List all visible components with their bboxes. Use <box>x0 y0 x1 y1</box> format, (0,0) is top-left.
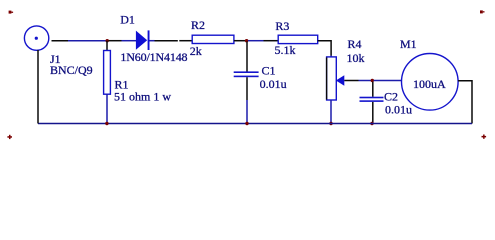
svg-text:2k: 2k <box>190 44 202 58</box>
diode D1 <box>136 30 150 50</box>
resistor R1 <box>104 51 111 95</box>
wire C2 top lead <box>372 82 374 97</box>
corner mark top-left <box>9 11 13 14</box>
corner mark bottom-right <box>482 135 487 139</box>
wire wiper to node C <box>344 80 371 82</box>
wire C1 top lead <box>246 42 248 72</box>
wire R1 bottom lead <box>106 94 108 123</box>
capacitor C2 <box>360 97 384 102</box>
node C (junction C2 top / wiper) <box>371 79 374 82</box>
resistor R2 <box>192 35 234 43</box>
node A (junction R1 top) <box>106 39 109 42</box>
node G (junction C1 bottom) <box>245 122 248 125</box>
wire D1 to R2 <box>150 40 193 42</box>
connector J1 (BNC) <box>24 26 48 50</box>
wire node C to meter M1 <box>374 80 402 82</box>
wire bottom rail <box>38 123 472 125</box>
svg-text:D1: D1 <box>120 13 135 27</box>
capacitor C1 <box>234 71 259 77</box>
wire node B to R3 <box>248 40 278 42</box>
svg-text:R3: R3 <box>275 19 289 33</box>
svg-text:0.01u: 0.01u <box>385 103 412 117</box>
node D (junction C2 bottom) <box>370 122 373 125</box>
wire R4 bottom lead <box>330 100 332 124</box>
svg-text:0.01u: 0.01u <box>260 77 287 91</box>
resistor R4 (pot) <box>327 57 337 100</box>
svg-text:5.1k: 5.1k <box>275 43 296 57</box>
wire BNC to node A (top wire left) <box>52 40 107 42</box>
node B (junction C1 top) <box>245 39 248 42</box>
svg-text:R2: R2 <box>191 18 205 32</box>
wire R2 to node B <box>234 40 245 42</box>
wire C1 bottom lead <box>246 77 248 123</box>
corner mark top-right <box>480 10 485 13</box>
svg-text:51 ohm 1 w: 51 ohm 1 w <box>114 89 171 103</box>
wire R1 top lead <box>106 41 108 51</box>
svg-text:C2: C2 <box>384 90 398 104</box>
wire M1 right loop <box>458 81 472 124</box>
wire R3 to R4 (corner) <box>318 41 331 57</box>
svg-text:10k: 10k <box>347 51 365 65</box>
meter M1 <box>402 54 459 111</box>
svg-text:100uA: 100uA <box>413 77 446 91</box>
svg-text:1N60/1N4148: 1N60/1N4148 <box>120 50 187 64</box>
svg-text:C1: C1 <box>262 63 276 77</box>
node E (junction R4 bottom) <box>329 122 332 125</box>
wire C2 bottom lead <box>372 102 374 124</box>
wire left rail (BNC ground) <box>37 50 39 124</box>
corner mark bottom-left <box>7 135 12 139</box>
svg-text:BNC/Q9: BNC/Q9 <box>50 63 93 77</box>
node F (junction R1 bottom) <box>105 122 108 125</box>
wire node A to D1 <box>109 40 137 42</box>
svg-text:R4: R4 <box>348 37 362 51</box>
wiper arrow of R4 <box>336 75 344 86</box>
resistor R3 <box>278 35 318 43</box>
svg-text:M1: M1 <box>400 37 417 51</box>
